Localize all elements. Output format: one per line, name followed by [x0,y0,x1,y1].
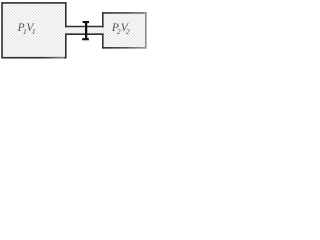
svg-text:1: 1 [32,27,36,36]
svg-text:2: 2 [126,27,130,36]
